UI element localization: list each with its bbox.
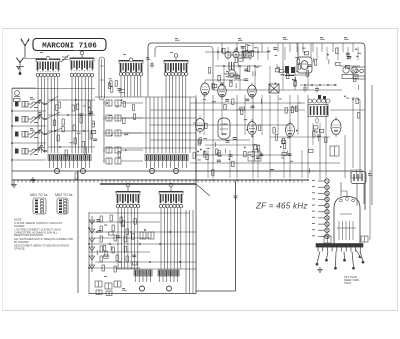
wire — [341, 190, 347, 192]
wire — [89, 221, 160, 223]
resistor R42 — [120, 217, 122, 223]
variable inductor L3 row — [15, 130, 45, 139]
wires mid drops — [196, 95, 308, 178]
chassis bus — [12, 170, 351, 172]
tube V1b — [218, 83, 227, 100]
junction dots left — [51, 99, 53, 101]
coil bank S2A — [119, 58, 143, 76]
resistor R411 — [116, 255, 118, 261]
box B2 — [361, 236, 368, 242]
wire left edge — [11, 88, 13, 186]
terminal row T1 — [48, 155, 91, 174]
dark cluster — [285, 66, 295, 76]
wire — [12, 142, 46, 144]
wire — [48, 146, 95, 148]
wires bank S2B down — [166, 76, 186, 153]
junction part — [75, 173, 77, 179]
cap C4 — [235, 73, 239, 80]
wires mid drops low — [208, 150, 302, 178]
page edge right — [397, 28, 399, 311]
label — [40, 51, 43, 54]
cluster under V1 — [218, 71, 233, 87]
resistor R410 — [100, 256, 102, 262]
junction dots — [304, 84, 306, 86]
box B1 — [324, 236, 331, 243]
label — [368, 173, 373, 176]
wire bus h1 — [95, 96, 196, 98]
notes text block — [14, 218, 73, 251]
coil bank S2B — [164, 54, 188, 76]
wire — [297, 43, 299, 57]
left labels — [30, 97, 35, 100]
pin column P1-P10 — [318, 179, 329, 239]
IF can T2 — [353, 67, 365, 79]
wire — [369, 170, 371, 240]
cluster V8 — [280, 138, 293, 162]
resistor R15 — [92, 121, 94, 127]
wires right drop set — [186, 210, 193, 293]
tube V5 — [196, 116, 205, 134]
terminal row T2 — [145, 155, 188, 174]
top cluster wires — [205, 51, 270, 53]
output tube V10 — [334, 191, 360, 244]
wire — [344, 135, 346, 178]
wire — [12, 159, 46, 161]
resistor R46 — [114, 235, 116, 241]
page edge top — [2, 28, 398, 30]
label SKT — [344, 275, 360, 285]
screened lead W1 — [99, 57, 105, 100]
coil pack row 4 — [106, 147, 112, 153]
resistor R48 — [100, 246, 102, 252]
tube V6 box — [218, 118, 230, 139]
wire — [89, 231, 196, 233]
wire — [312, 123, 314, 145]
cluster IFcan — [346, 48, 361, 58]
wire — [89, 212, 190, 214]
coil bank S1B — [70, 51, 94, 76]
tube V1a — [201, 81, 210, 98]
socket pins long — [316, 252, 364, 270]
main box outline — [148, 43, 365, 210]
osc coil pair — [225, 51, 239, 58]
left scatter — [53, 104, 97, 147]
mid wires — [190, 102, 305, 104]
dots top — [217, 51, 219, 53]
wire — [12, 88, 95, 90]
tube V3 — [229, 70, 236, 77]
variable inductor L2 row — [15, 115, 45, 124]
ground — [30, 177, 36, 182]
svg-text:SHOWN: SHOWN — [14, 224, 24, 228]
resistor R49 — [112, 247, 114, 253]
colB scatter — [107, 99, 136, 157]
coil bank S4B — [159, 183, 183, 207]
top labels — [175, 38, 180, 41]
wires bank S2A down — [121, 76, 141, 97]
mid scatter — [193, 119, 313, 175]
diode stack D1-D6 — [89, 216, 94, 272]
transformer X1 — [269, 84, 279, 93]
label — [123, 53, 126, 56]
cluster V7 — [244, 136, 264, 157]
IF transformer S3 — [308, 99, 330, 124]
trap box L5 — [248, 152, 261, 161]
variable inductor L1 row — [15, 100, 45, 109]
wire — [89, 243, 196, 245]
wire — [356, 184, 358, 207]
resistor R413 — [102, 265, 104, 271]
diag wire — [46, 96, 58, 104]
wire — [95, 261, 196, 263]
cluster right2 — [344, 96, 360, 119]
ground — [11, 182, 17, 187]
resistor R412 — [126, 256, 128, 262]
cluster under V2 — [244, 66, 259, 80]
cluster right-mid — [313, 126, 328, 143]
box L7 — [351, 170, 362, 178]
wire — [359, 100, 361, 178]
IF can T1 — [340, 66, 360, 79]
junction dots mid — [195, 179, 197, 181]
coil pack row 1 — [106, 100, 112, 106]
terminal row T4 — [158, 270, 179, 291]
page edge left — [2, 28, 4, 311]
cluster V5 — [193, 138, 210, 160]
wire — [340, 182, 342, 196]
resistor R17 — [74, 138, 76, 144]
bottom cluster — [95, 281, 102, 287]
wires mid drops short — [204, 95, 298, 135]
wire — [150, 139, 250, 141]
antenna coupling symbol — [16, 58, 24, 75]
resistor R47 — [124, 236, 126, 242]
resistor R414 — [114, 266, 116, 272]
wire — [155, 47, 213, 91]
wire — [319, 123, 321, 180]
diagonal wire — [196, 184, 210, 196]
resistor R16 — [57, 135, 59, 141]
can V4 — [297, 57, 312, 73]
wire — [116, 268, 196, 270]
svg-text:ZF = 465 kHz: ZF = 465 kHz — [255, 202, 308, 211]
wire — [150, 124, 290, 126]
junction dots lower — [88, 227, 90, 229]
title box MARCONI 7106 — [33, 39, 106, 51]
ground — [317, 267, 323, 272]
wire — [325, 100, 327, 178]
connector MD1 — [33, 198, 46, 214]
wire — [89, 267, 140, 269]
label — [146, 57, 151, 60]
wire — [48, 114, 95, 116]
wires bank S1B down — [72, 77, 92, 153]
wire right inner — [371, 85, 373, 205]
page edge bottom — [2, 310, 398, 312]
wire — [12, 110, 46, 112]
svg-text:TAGS: TAGS — [344, 281, 351, 285]
wires top drops — [222, 43, 353, 52]
wires bank S1A down — [38, 77, 58, 153]
cluster marks — [318, 95, 326, 100]
resistor R11 — [72, 105, 74, 111]
svg-text:MD1 TO 1a: MD1 TO 1a — [30, 193, 48, 197]
wire — [150, 109, 305, 111]
box L6 — [330, 146, 339, 156]
svg-text:BY SHOWN: BY SHOWN — [14, 240, 29, 244]
connector MD2 — [57, 198, 68, 214]
cluster above — [203, 99, 301, 115]
caps on bus — [303, 86, 307, 93]
wires bank S4A down — [118, 208, 138, 269]
resistor R14 — [80, 117, 82, 123]
svg-text:STANCE: STANCE — [14, 246, 25, 250]
tube socket — [316, 244, 363, 252]
resistor R10 — [58, 102, 60, 108]
heavy bus segment — [100, 183, 196, 185]
svg-text:NOTE:: NOTE: — [14, 218, 22, 222]
coil bank S1A — [36, 56, 60, 76]
wires bank S4B down — [161, 208, 181, 269]
box edge — [88, 212, 90, 294]
wire — [330, 109, 365, 111]
cluster colB top — [108, 78, 124, 92]
wire — [48, 130, 95, 132]
choke dashes — [229, 62, 234, 70]
wire — [147, 60, 149, 97]
wire — [48, 99, 95, 101]
wire — [282, 43, 284, 68]
coil pack row 2 — [106, 115, 112, 121]
cap C3 — [248, 54, 252, 61]
tube V8 — [286, 121, 295, 139]
resistor R45 — [100, 236, 102, 242]
top scatter2 — [222, 45, 306, 54]
antenna symbol — [21, 39, 29, 59]
pin labels — [312, 179, 315, 182]
resistor R13 — [62, 119, 64, 125]
resistor R12 — [88, 101, 90, 107]
resistor R19 — [65, 150, 67, 156]
resistor R110 — [84, 148, 86, 154]
terminal row T3 — [134, 270, 152, 291]
coil pack row 5 — [106, 158, 112, 164]
bottom box — [89, 98, 236, 294]
variable inductor L4 row — [15, 147, 45, 156]
svg-text:RESISTORS POSITION: RESISTORS POSITION — [14, 233, 43, 237]
box — [242, 51, 248, 58]
wire — [25, 58, 46, 60]
resistor R43 — [100, 226, 102, 232]
tube V7 — [248, 119, 257, 137]
tube V1c — [248, 83, 257, 100]
wire — [105, 117, 196, 119]
trimmer C1 — [61, 55, 69, 62]
wire — [89, 251, 150, 253]
wire — [105, 132, 196, 134]
resistor R18 — [90, 133, 92, 139]
wire long drop — [77, 172, 79, 294]
coil bank S4A — [116, 183, 140, 207]
wire — [103, 100, 105, 162]
mid boxes — [140, 232, 146, 239]
top scatter — [208, 48, 358, 90]
tube V9 — [331, 117, 341, 137]
coil pack row 3 — [106, 130, 112, 136]
arrow — [356, 250, 361, 258]
svg-text:MARCONI 7106: MARCONI 7106 — [42, 43, 97, 51]
dashed bus — [12, 180, 308, 183]
wire — [310, 43, 312, 57]
wire — [363, 184, 365, 205]
wire — [95, 237, 150, 239]
wires mid vertical set — [146, 97, 190, 153]
wire — [228, 54, 246, 56]
wire — [12, 87, 36, 89]
resistor R41 — [110, 215, 112, 221]
cap C9 — [234, 194, 238, 201]
svg-text:MD2 TO 2a: MD2 TO 2a — [55, 193, 73, 197]
cap C2 — [150, 62, 154, 69]
resistor R40 — [100, 216, 102, 222]
cluster X — [279, 69, 299, 86]
cluster V6 — [216, 141, 233, 162]
wire — [105, 147, 196, 149]
resistor R44 — [112, 225, 114, 231]
box L7b — [351, 172, 366, 184]
wire — [12, 125, 46, 127]
lower scatter — [97, 219, 138, 265]
wire — [352, 100, 354, 168]
jack J1 — [14, 91, 21, 102]
